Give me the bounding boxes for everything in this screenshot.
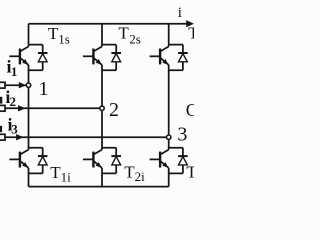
- svg-text:2: 2: [109, 99, 119, 121]
- svg-text:2i: 2i: [135, 169, 146, 184]
- svg-text:1s: 1s: [58, 31, 70, 46]
- svg-text:T: T: [188, 24, 194, 43]
- svg-text:i: i: [178, 5, 182, 21]
- svg-text:3: 3: [11, 121, 18, 136]
- svg-text:2s: 2s: [129, 32, 141, 47]
- svg-text:2: 2: [10, 94, 17, 109]
- svg-text:3: 3: [177, 123, 187, 145]
- svg-text:T: T: [186, 163, 194, 182]
- svg-text:1i: 1i: [61, 169, 72, 184]
- svg-text:T: T: [118, 24, 129, 43]
- svg-text:1: 1: [11, 64, 18, 79]
- svg-text:C: C: [186, 100, 194, 120]
- svg-text:1: 1: [39, 78, 49, 100]
